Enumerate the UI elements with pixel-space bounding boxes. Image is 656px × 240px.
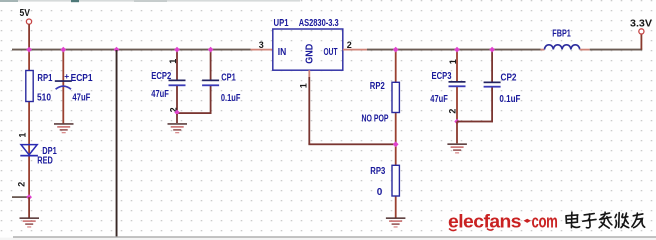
svg-text:0: 0 xyxy=(377,187,383,198)
svg-text:3: 3 xyxy=(259,40,264,50)
resistor RP2 xyxy=(362,81,400,124)
wire FBP1 to 3.3V terminal xyxy=(590,34,643,50)
svg-text:RED: RED xyxy=(37,155,53,166)
svg-text:510: 510 xyxy=(37,92,51,103)
node 5V terminal circle xyxy=(26,19,31,24)
wire DP1 to ground xyxy=(28,197,30,218)
junction ECP3/CP2 ground node xyxy=(454,119,459,125)
svg-text:com: com xyxy=(532,212,558,232)
wire ECP1 branch xyxy=(62,50,64,123)
svg-text:elecfans: elecfans xyxy=(448,212,522,232)
capacitor ECP3 xyxy=(430,71,465,105)
wire ECP3 branch xyxy=(456,50,458,122)
junction 3.3V rail / CP2 xyxy=(489,47,495,53)
resistor RP1 xyxy=(26,71,53,104)
resistor RP3 xyxy=(370,165,399,198)
capacitor ECP1 (polarized) xyxy=(55,71,93,103)
node 5V terminal text xyxy=(20,8,31,19)
logo elecfans.com xyxy=(448,212,558,232)
wire ECP2 branch xyxy=(176,50,178,113)
svg-text:IN: IN xyxy=(278,47,287,58)
svg-text:1: 1 xyxy=(17,133,27,138)
status bar bottom edge xyxy=(0,236,656,240)
wire ECP2 node to ground xyxy=(176,114,178,123)
wire left stub at DP1 ground node xyxy=(12,196,29,198)
pin 2 of U1 (OUT) xyxy=(343,40,368,50)
capacitor CP2 xyxy=(484,73,521,106)
wire CP1 branch xyxy=(210,50,212,113)
inductor FBP1 xyxy=(541,28,590,50)
ground below ECP1 xyxy=(54,123,74,133)
diode DP1 (LED) xyxy=(20,145,57,167)
junction 5V rail / long wire xyxy=(114,47,120,53)
junction 5V rail / RP1 branch xyxy=(26,47,32,53)
pin 1 of ECP2 xyxy=(168,59,178,64)
svg-text:2: 2 xyxy=(448,109,458,114)
svg-text:ECP2: ECP2 xyxy=(151,71,171,82)
wire CP2 branch xyxy=(457,50,493,122)
pin 1 of U1 (GND) xyxy=(299,70,311,88)
svg-text:47uF: 47uF xyxy=(430,94,448,105)
svg-text:NO POP: NO POP xyxy=(362,113,389,124)
svg-text:GND: GND xyxy=(305,44,316,64)
svg-text:2: 2 xyxy=(347,40,352,50)
svg-text:RP2: RP2 xyxy=(370,81,385,92)
junction RP2/RP3/GND-pin node xyxy=(393,141,399,147)
pin 1 of DP1 xyxy=(17,133,27,138)
capacitor CP1 xyxy=(202,73,240,105)
ground below DP1 xyxy=(20,217,40,227)
wire GND pin down and right to RP2/RP3 node xyxy=(308,77,396,145)
junction 5V rail / ECP2 xyxy=(174,47,180,53)
junction 5V rail / CP1 xyxy=(208,47,214,53)
ground below ECP3 xyxy=(447,143,467,153)
svg-text:FBP1: FBP1 xyxy=(552,28,571,39)
svg-text:ECP3: ECP3 xyxy=(432,71,452,82)
wire 5V drop to rail xyxy=(28,24,30,49)
ground below ECP2/CP1 xyxy=(168,123,188,133)
svg-text:ECP1: ECP1 xyxy=(71,73,93,84)
svg-text:1: 1 xyxy=(448,59,458,64)
pin 2 of DP1 xyxy=(16,182,26,187)
svg-text:RP3: RP3 xyxy=(370,166,385,177)
junction at DP1 ground node xyxy=(26,194,32,200)
svg-text:+: + xyxy=(64,71,69,81)
junction ECP2 ground node xyxy=(174,110,179,116)
pin 2 of ECP3 xyxy=(448,109,458,114)
svg-text:AS2830-3.3: AS2830-3.3 xyxy=(299,18,339,29)
svg-text:OUT: OUT xyxy=(324,47,338,58)
svg-text:3.3V: 3.3V xyxy=(630,18,652,29)
op-amp/regulator UP1 AS2830-3.3 box xyxy=(273,18,343,70)
svg-text:47uF: 47uF xyxy=(151,89,169,100)
pin 2 of ECP2 xyxy=(168,107,178,112)
svg-text:5V: 5V xyxy=(20,8,31,19)
svg-text:0.1uF: 0.1uF xyxy=(499,94,520,105)
pin 3 of U1 (IN) xyxy=(251,40,274,50)
capacitor ECP2 xyxy=(151,71,185,100)
wire long vertical to bottom xyxy=(116,50,118,236)
junction 3.3V rail / ECP3 xyxy=(454,47,460,53)
logo Chinese characters 电子发烧友 xyxy=(566,212,645,228)
svg-text:0.1uF: 0.1uF xyxy=(221,93,241,104)
wire ECP3 node to ground xyxy=(456,122,458,144)
toolbar remnant top edge xyxy=(0,0,300,2)
wire RP1/DP1 branch xyxy=(28,50,30,197)
junction 5V rail / ECP1 xyxy=(60,47,66,53)
ground below RP3 xyxy=(386,217,406,227)
wire 3.3V rail xyxy=(367,49,541,51)
svg-text:1: 1 xyxy=(168,59,178,64)
svg-text:CP2: CP2 xyxy=(501,73,517,84)
svg-text:47uF: 47uF xyxy=(72,92,90,103)
svg-text:RP1: RP1 xyxy=(37,73,52,84)
pin 1 of ECP3 xyxy=(448,59,458,64)
wire RP2/RP3 branch xyxy=(395,50,397,218)
svg-text:2: 2 xyxy=(16,182,26,187)
svg-text:1: 1 xyxy=(299,83,309,88)
junction 3.3V rail / RP2 xyxy=(393,47,399,53)
wire 5V rail xyxy=(12,49,251,51)
wire ECP2/CP1 bottoms joined xyxy=(176,112,211,114)
svg-text:CP1: CP1 xyxy=(221,73,236,84)
node 3.3V terminal text xyxy=(630,18,652,29)
node 3.3V terminal circle xyxy=(639,29,644,34)
svg-text:UP1: UP1 xyxy=(274,18,289,29)
